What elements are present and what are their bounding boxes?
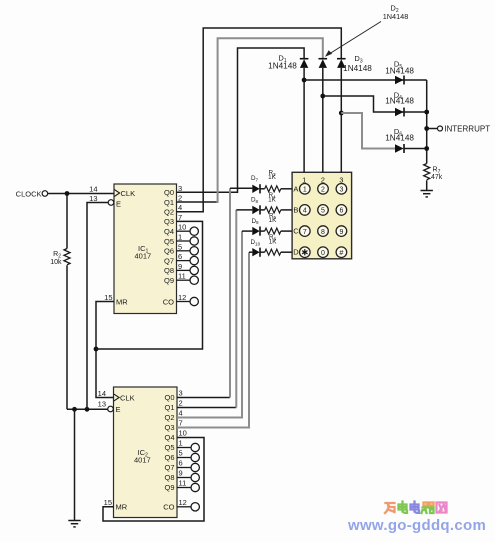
wire D6 to bus (404, 148, 427, 150)
svg-text:10: 10 (178, 223, 186, 232)
keypad key * (300, 247, 311, 258)
keypad key 1 (300, 184, 311, 195)
svg-text:3: 3 (339, 187, 343, 194)
svg-text:9: 9 (339, 229, 343, 236)
diode D8 (cathode right) (252, 205, 264, 214)
IC U2 body (IC2 4017) (114, 387, 178, 518)
label R3 1K (268, 170, 277, 181)
svg-text:14: 14 (98, 389, 106, 398)
svg-text:D10: D10 (250, 239, 260, 246)
node column2 tap (320, 94, 325, 99)
svg-text:7: 7 (179, 419, 183, 428)
svg-text:15: 15 (104, 293, 112, 302)
svg-text:1N4148: 1N4148 (343, 64, 372, 73)
svg-text:Q2: Q2 (164, 208, 174, 217)
wire IC2 MR pin15 to Q4 pin10 reset loop (103, 438, 204, 522)
svg-text:14: 14 (89, 185, 97, 194)
svg-text:Q9: Q9 (164, 276, 174, 285)
wire column3 jog to D6 line (gray) (341, 113, 395, 149)
svg-text:5: 5 (178, 242, 182, 251)
svg-text:Q0: Q0 (164, 188, 174, 197)
svg-text:2: 2 (179, 399, 183, 408)
svg-text:D7: D7 (251, 175, 259, 182)
wire column1 diode to keypad (303, 68, 305, 172)
diode D5 (horizontal, cathode right) (395, 76, 404, 85)
wire column2 diode to keypad (322, 68, 324, 172)
wire IC2 Q3 pin7 up to row D (gray) (177, 252, 252, 428)
svg-text:E: E (116, 405, 121, 414)
IC U1 body (IC1 4017) (114, 184, 177, 314)
node MR/Q3/CLK2 junction (94, 347, 99, 352)
svg-text:Q5: Q5 (164, 237, 174, 246)
label D3 1N4148 (343, 54, 372, 73)
diode D10 (cathode right) (252, 248, 264, 257)
svg-text:www.go-gddq.com: www.go-gddq.com (347, 517, 486, 534)
svg-text:15: 15 (104, 498, 112, 507)
wire column3 diode to keypad (340, 68, 342, 172)
svg-text:5: 5 (179, 449, 183, 458)
svg-text:9: 9 (178, 262, 182, 271)
node bus/D6 (424, 146, 429, 151)
keypad key 3 (336, 184, 347, 195)
wire ground stub (74, 409, 76, 520)
svg-text:2: 2 (178, 194, 182, 203)
svg-text:11: 11 (179, 479, 187, 488)
keypad key 5 (318, 205, 329, 216)
resistor R2 10k vertical with wires (50, 194, 70, 410)
node clock/R2 junction (65, 191, 70, 196)
wire IC1 E pin13 down to E-bus (87, 203, 108, 410)
svg-text:Q8: Q8 (164, 473, 174, 482)
svg-text:INTERRUPT: INTERRUPT (444, 125, 490, 134)
svg-text:1: 1 (178, 233, 182, 242)
ground symbol (left) (68, 521, 80, 527)
svg-text:4: 4 (178, 203, 182, 212)
svg-text:B: B (293, 205, 298, 214)
svg-text:3: 3 (179, 389, 183, 398)
svg-text:Q2: Q2 (164, 413, 174, 422)
svg-text:MR: MR (116, 502, 128, 511)
svg-text:47k: 47k (431, 174, 443, 181)
svg-text:D8: D8 (251, 197, 259, 204)
IC U2 E-pin bubble (pin 13) (108, 406, 114, 412)
svg-text:8: 8 (321, 229, 325, 236)
svg-text:CLK: CLK (120, 393, 135, 402)
svg-text:0: 0 (321, 250, 325, 257)
IC U2 left pin number labels 14 13 15 (98, 389, 112, 507)
wire IC2 Q1 pin2 up to row B (177, 210, 252, 408)
keypad key 7 (300, 226, 311, 237)
svg-text:Q7: Q7 (164, 256, 174, 265)
svg-text:4017: 4017 (135, 252, 152, 261)
svg-text:11: 11 (178, 272, 186, 281)
ground symbol (under R7) (421, 191, 433, 197)
svg-text:9: 9 (179, 469, 183, 478)
wire interrupt bus vertical (426, 80, 428, 164)
wire CLOCK to IC1 CLK pin14 (48, 193, 114, 195)
node bus/D4 (424, 110, 429, 115)
resistor R6 1K (row D) (265, 249, 292, 255)
svg-text:#: # (339, 248, 343, 257)
svg-text:6: 6 (179, 459, 183, 468)
svg-text:Q4: Q4 (164, 227, 174, 236)
node bus/interrupt tap (424, 126, 429, 131)
resistor R5 1K (row C) (265, 228, 292, 234)
svg-text:Q5: Q5 (164, 443, 174, 452)
node ground tee (72, 407, 77, 412)
keypad row labels A B C D (293, 184, 299, 256)
svg-text:CLOCK: CLOCK (16, 190, 42, 199)
IC U1 right pin number labels (178, 184, 186, 302)
label D6 1N4148 (385, 127, 414, 143)
svg-text:CLK: CLK (121, 189, 136, 198)
diode D6 (horizontal, cathode right) (395, 144, 404, 153)
INTERRUPT output terminal (427, 125, 490, 134)
svg-text:1: 1 (303, 187, 307, 194)
svg-text:10: 10 (179, 429, 187, 438)
resistor R3 1K (row A) (265, 186, 292, 192)
label R5 1K (269, 213, 278, 224)
svg-text:1N4148: 1N4148 (385, 134, 414, 143)
keypad key # (336, 247, 347, 258)
svg-text:1K: 1K (269, 239, 278, 246)
node column1 tap (302, 78, 307, 83)
svg-text:7: 7 (303, 229, 307, 236)
svg-text:C: C (293, 227, 299, 236)
keypad key 8 (318, 226, 329, 237)
svg-text:1N4148: 1N4148 (268, 61, 297, 70)
svg-text:Q6: Q6 (164, 453, 174, 462)
wire IC1 MR pin15 to Q3 loop and IC2 CLK pin14 (96, 302, 114, 398)
keypad key 6 (336, 205, 347, 216)
svg-text:4017: 4017 (134, 456, 151, 465)
wire E-bus horizontal to IC2 E pin13 (67, 408, 108, 410)
svg-text:1K: 1K (269, 217, 278, 224)
svg-text:6: 6 (178, 252, 182, 261)
svg-text:1: 1 (179, 439, 183, 448)
svg-text:13: 13 (98, 400, 106, 409)
resistor R4 1K (row B) (265, 207, 292, 213)
svg-text:Q1: Q1 (164, 198, 174, 207)
svg-text:Q3: Q3 (164, 423, 174, 432)
label D1 1N4148 (268, 54, 297, 71)
svg-text:Q9: Q9 (164, 483, 174, 492)
svg-text:Q3: Q3 (164, 217, 174, 226)
svg-text:7: 7 (178, 213, 182, 222)
svg-text:5: 5 (321, 208, 325, 215)
svg-text:1N4148: 1N4148 (385, 67, 414, 76)
keypad key 2 (318, 184, 329, 195)
svg-text:3: 3 (178, 184, 182, 193)
diode D1 (vertical, cathode up) (300, 59, 309, 68)
svg-text:4: 4 (303, 208, 307, 215)
wire IC1 Q2 pin4 to column3 top (177, 28, 342, 212)
svg-text:1N4148: 1N4148 (383, 12, 409, 21)
node IC1-E tee (85, 407, 90, 412)
wire column2 jog to D4 line (323, 96, 427, 112)
svg-text:10k: 10k (50, 259, 62, 266)
watermark chinese characters (385, 502, 447, 514)
wire IC2 Q0 pin3 up to row A (177, 188, 252, 397)
svg-text:D9: D9 (251, 218, 259, 225)
svg-text:Q1: Q1 (164, 403, 174, 412)
svg-text:1K: 1K (268, 174, 277, 181)
label D4 1N4148 (385, 90, 414, 105)
svg-text:CO: CO (163, 502, 174, 511)
svg-text:Q8: Q8 (164, 266, 174, 275)
svg-text:Q0: Q0 (164, 393, 174, 402)
svg-text:13: 13 (89, 194, 97, 203)
svg-text:E: E (116, 200, 121, 209)
svg-text:A: A (293, 184, 298, 193)
svg-text:Q6: Q6 (164, 247, 174, 256)
IC U1 open pin terminals Q4-Q9,CO (177, 227, 199, 306)
svg-text:MR: MR (116, 297, 128, 306)
keypad column labels 1 2 3 (302, 176, 343, 185)
wire IC1 Q1 pin2 to column2 top (gray) (177, 201, 217, 203)
diode D9 (cathode right) (252, 227, 264, 236)
wire IC2 Q2 pin4 up to row C (gray) (177, 231, 252, 418)
svg-text:12: 12 (179, 498, 187, 507)
svg-text:2: 2 (321, 187, 325, 194)
wire IC1 Q3 pin7 reset loop (96, 221, 203, 349)
IC U1 E-pin bubble (pin 13) (108, 200, 114, 206)
label D2 1N4148 with pointer arrow (325, 4, 408, 57)
IC U2 open pin terminals Q5-Q9,CO (177, 443, 199, 511)
diode D4 (horizontal, cathode right) (395, 108, 404, 117)
svg-text:6: 6 (339, 208, 343, 215)
svg-text:1K: 1K (268, 196, 277, 203)
svg-text:12: 12 (178, 293, 186, 302)
keypad body (292, 172, 352, 258)
wire IC1 Q0 pin3 to column1 top (177, 48, 305, 192)
node column3 tap (339, 111, 344, 116)
diode D3 (vertical, cathode up) (337, 59, 346, 68)
label R4 1K (268, 192, 277, 203)
svg-text:4: 4 (179, 409, 183, 418)
resistor R7 47k vertical (424, 164, 443, 191)
IC U2 right pin number labels (179, 389, 187, 507)
svg-text:1N4148: 1N4148 (385, 97, 414, 106)
diode D7 (cathode right) (252, 184, 264, 193)
svg-text:Q4: Q4 (164, 433, 174, 442)
CLOCK input terminal (16, 190, 48, 199)
wire column1 to D5 to bus (304, 79, 427, 81)
svg-text:CO: CO (163, 297, 174, 306)
keypad key 4 (300, 205, 311, 216)
keypad key 0 (318, 247, 329, 258)
keypad key 9 (336, 226, 347, 237)
svg-text:D: D (293, 248, 299, 257)
label D5 1N4148 (385, 60, 414, 76)
IC U1 left pin number labels 14 13 15 (89, 185, 112, 303)
diode D2 (vertical, cathode up) (319, 59, 328, 68)
svg-text:Q7: Q7 (164, 463, 174, 472)
label R6 1K (269, 234, 278, 245)
